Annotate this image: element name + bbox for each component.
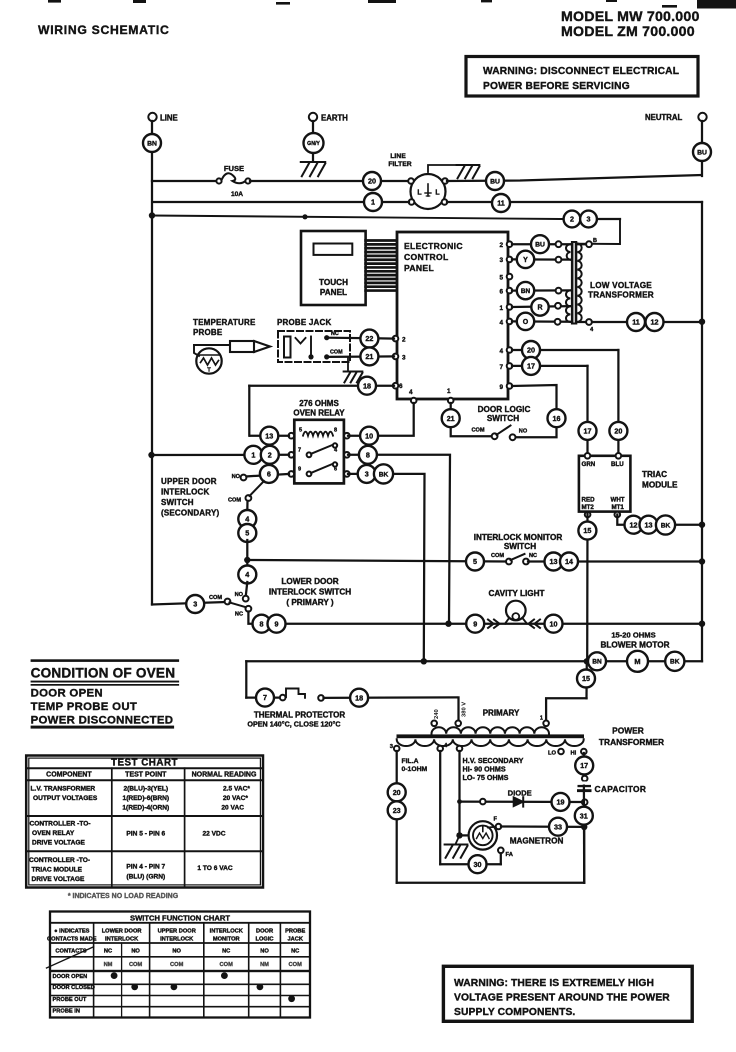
svg-text:INTERLOCK MONITOR: INTERLOCK MONITOR: [474, 533, 563, 542]
svg-text:15-20 OHMS: 15-20 OHMS: [611, 631, 655, 640]
svg-text:276 OHMS: 276 OHMS: [299, 399, 339, 408]
svg-text:1(RED)-4(ORN): 1(RED)-4(ORN): [122, 805, 169, 812]
svg-text:NM: NM: [104, 962, 113, 968]
svg-text:PROBE JACK: PROBE JACK: [277, 318, 331, 327]
svg-text:NC: NC: [291, 949, 299, 955]
svg-text:4: 4: [499, 320, 503, 327]
svg-text:L: L: [417, 190, 422, 197]
svg-text:MONITOR: MONITOR: [213, 937, 240, 943]
svg-text:4: 4: [245, 515, 249, 524]
svg-text:FA: FA: [506, 852, 514, 858]
svg-text:TOUCH: TOUCH: [319, 278, 348, 287]
svg-text:NC: NC: [222, 949, 230, 955]
svg-text:20 VAC: 20 VAC: [221, 805, 244, 812]
svg-text:ELECTRONIC: ELECTRONIC: [404, 241, 463, 251]
svg-text:1(RED)-6(BRN): 1(RED)-6(BRN): [123, 795, 170, 802]
svg-text:SWITCH: SWITCH: [487, 414, 519, 423]
svg-text:1: 1: [499, 305, 503, 312]
svg-text:BK: BK: [670, 659, 680, 666]
svg-text:LOWER DOOR: LOWER DOOR: [281, 577, 338, 586]
svg-text:7: 7: [298, 448, 301, 454]
svg-text:12: 12: [651, 318, 659, 327]
svg-text:THERMAL PROTECTOR: THERMAL PROTECTOR: [254, 711, 345, 720]
svg-text:COM: COM: [471, 428, 484, 434]
svg-text:COM: COM: [170, 962, 184, 968]
svg-text:30: 30: [474, 860, 482, 869]
svg-text:17: 17: [580, 761, 588, 770]
svg-text:PROBE IN: PROBE IN: [53, 1008, 81, 1014]
svg-text:380 V: 380 V: [462, 702, 468, 717]
svg-text:L: L: [435, 190, 440, 197]
svg-text:NEUTRAL: NEUTRAL: [645, 113, 682, 122]
svg-text:COM: COM: [129, 962, 143, 968]
svg-text:20 VAC*: 20 VAC*: [223, 795, 249, 802]
svg-text:NC: NC: [529, 553, 537, 559]
svg-text:UPPER DOOR: UPPER DOOR: [158, 929, 196, 935]
svg-text:BLOWER MOTOR: BLOWER MOTOR: [601, 641, 670, 650]
svg-text:COMPONENT: COMPONENT: [46, 772, 92, 779]
svg-text:0-1OHM: 0-1OHM: [402, 766, 428, 773]
svg-text:PIN 5 - PIN 6: PIN 5 - PIN 6: [126, 831, 165, 838]
svg-text:8: 8: [260, 619, 264, 628]
svg-text:O: O: [523, 319, 529, 326]
svg-text:* INDICATES NO LOAD READING: * INDICATES NO LOAD READING: [68, 893, 179, 900]
svg-text:3: 3: [365, 469, 369, 478]
svg-text:2: 2: [499, 242, 503, 249]
svg-text:INTERLOCK SWITCH: INTERLOCK SWITCH: [269, 588, 351, 597]
svg-text:NO: NO: [131, 949, 140, 955]
svg-text:3: 3: [402, 355, 406, 362]
svg-text:20: 20: [614, 426, 622, 435]
svg-text:LOGIC: LOGIC: [256, 937, 274, 943]
svg-text:NO: NO: [232, 474, 241, 480]
svg-text:13: 13: [645, 520, 653, 529]
svg-text:5: 5: [245, 529, 249, 538]
svg-text:BK: BK: [379, 471, 389, 478]
svg-text:TEMP PROBE OUT: TEMP PROBE OUT: [31, 701, 138, 713]
svg-text:LOWER DOOR: LOWER DOOR: [102, 929, 142, 935]
svg-text:20: 20: [393, 788, 401, 797]
svg-text:WARNING: DISCONNECT ELECTRICA: WARNING: DISCONNECT ELECTRICAL: [483, 66, 679, 77]
svg-text:20: 20: [527, 346, 535, 355]
svg-text:31: 31: [580, 811, 588, 820]
svg-text:14: 14: [565, 557, 573, 566]
svg-text:13: 13: [265, 431, 273, 440]
svg-text:22 VDC: 22 VDC: [202, 831, 225, 838]
svg-text:9: 9: [298, 467, 301, 473]
svg-text:NO: NO: [260, 949, 269, 955]
svg-text:EARTH: EARTH: [321, 114, 348, 123]
svg-text:INTERLOCK: INTERLOCK: [161, 488, 209, 497]
svg-text:MODEL MW 700.000: MODEL MW 700.000: [561, 9, 700, 25]
svg-text:2: 2: [268, 450, 272, 459]
svg-text:7: 7: [499, 364, 503, 371]
svg-text:PANEL: PANEL: [320, 288, 347, 297]
svg-text:WARNING: THERE IS EXTREMELY H: WARNING: THERE IS EXTREMELY HIGH: [454, 978, 654, 989]
svg-text:POWER BEFORE SERVICING: POWER BEFORE SERVICING: [483, 81, 630, 92]
svg-text:SWITCH FUNCTION CHART: SWITCH FUNCTION CHART: [130, 913, 230, 922]
svg-text:1: 1: [251, 450, 255, 459]
svg-text:GN/Y: GN/Y: [307, 141, 320, 147]
svg-text:15: 15: [583, 526, 591, 535]
svg-text:LINE: LINE: [160, 114, 178, 123]
svg-text:NC: NC: [331, 331, 339, 337]
svg-text:1 TO 6 VAC: 1 TO 6 VAC: [197, 865, 233, 872]
svg-text:FIL.A: FIL.A: [402, 758, 419, 765]
svg-text:LO- 75 OHMS: LO- 75 OHMS: [463, 773, 509, 782]
svg-text:21: 21: [447, 414, 455, 423]
svg-text:M: M: [634, 657, 640, 666]
svg-text:(BLU) (GRN): (BLU) (GRN): [126, 874, 165, 881]
svg-text:CONDITION OF OVEN: CONDITION OF OVEN: [31, 666, 176, 681]
svg-text:19: 19: [557, 797, 565, 806]
svg-text:MT1: MT1: [612, 504, 625, 511]
svg-text:9: 9: [499, 384, 503, 391]
svg-text:JACK: JACK: [287, 937, 303, 943]
svg-text:11: 11: [632, 318, 640, 327]
svg-text:POWER: POWER: [612, 726, 644, 736]
svg-text:NORMAL READING: NORMAL READING: [192, 772, 257, 779]
svg-text:22: 22: [365, 334, 373, 343]
svg-text:CAVITY LIGHT: CAVITY LIGHT: [488, 589, 544, 598]
svg-text:T: T: [207, 368, 211, 374]
svg-text:MT2: MT2: [582, 504, 595, 511]
svg-text:PROBE: PROBE: [193, 328, 223, 337]
svg-text:COM: COM: [220, 962, 234, 968]
svg-text:DIODE: DIODE: [508, 789, 532, 798]
svg-text:PROBE: PROBE: [285, 929, 305, 935]
svg-text:16: 16: [553, 414, 561, 423]
svg-text:COM: COM: [289, 962, 303, 968]
svg-text:TEMPERATURE: TEMPERATURE: [193, 318, 256, 327]
svg-text:TRANSFORMER: TRANSFORMER: [599, 737, 664, 747]
svg-text:SWITCH: SWITCH: [504, 542, 536, 551]
svg-text:INTERLOCK: INTERLOCK: [160, 937, 194, 943]
svg-text:HI: HI: [571, 751, 577, 757]
svg-text:LOW VOLTAGE: LOW VOLTAGE: [590, 281, 652, 290]
svg-text:MODEL ZM 700.000: MODEL ZM 700.000: [561, 24, 695, 40]
svg-text:5: 5: [473, 557, 477, 566]
svg-text:CAPACITOR: CAPACITOR: [595, 784, 647, 794]
svg-text:( PRIMARY ): ( PRIMARY ): [286, 598, 334, 607]
svg-text:FILTER: FILTER: [388, 161, 411, 168]
svg-text:UPPER DOOR: UPPER DOOR: [161, 477, 217, 486]
svg-text:BN: BN: [147, 140, 157, 147]
svg-text:DOOR LOGIC: DOOR LOGIC: [478, 405, 531, 414]
svg-text:21: 21: [365, 352, 373, 361]
svg-text:3: 3: [499, 257, 503, 264]
svg-text:9: 9: [473, 619, 477, 628]
svg-text:TEST CHART: TEST CHART: [111, 757, 178, 768]
svg-text:INTERLOCK: INTERLOCK: [105, 937, 139, 943]
svg-text:240: 240: [434, 709, 440, 719]
svg-text:5: 5: [499, 275, 503, 282]
svg-text:5: 5: [299, 428, 302, 434]
svg-text:TRIAC MODULE: TRIAC MODULE: [32, 867, 83, 874]
svg-text:COM: COM: [330, 350, 343, 356]
svg-text:10A: 10A: [231, 191, 243, 198]
svg-text:DOOR: DOOR: [256, 929, 273, 935]
svg-text:COM: COM: [228, 498, 241, 504]
svg-text:● INDICATES: ● INDICATES: [54, 929, 89, 935]
svg-text:1: 1: [540, 716, 543, 722]
svg-text:L.V. TRANSFORMER: L.V. TRANSFORMER: [31, 786, 96, 793]
svg-text:4: 4: [245, 570, 249, 579]
svg-text:POWER DISCONNECTED: POWER DISCONNECTED: [31, 715, 174, 727]
svg-text:2: 2: [570, 215, 574, 224]
svg-text:WIRING SCHEMATIC: WIRING SCHEMATIC: [38, 23, 170, 37]
svg-text:PROBE OUT: PROBE OUT: [53, 997, 87, 1003]
svg-text:CONTACTS MADE: CONTACTS MADE: [47, 937, 97, 943]
svg-text:TRANSFORMER: TRANSFORMER: [588, 291, 654, 300]
svg-text:12: 12: [630, 520, 638, 529]
svg-text:15: 15: [582, 674, 590, 683]
svg-text:18: 18: [363, 381, 371, 390]
svg-text:DOOR OPEN: DOOR OPEN: [31, 688, 103, 700]
svg-text:BN: BN: [592, 659, 602, 666]
svg-text:NO: NO: [172, 949, 181, 955]
svg-text:NM: NM: [260, 962, 269, 968]
svg-text:PIN 4 - PIN 7: PIN 4 - PIN 7: [126, 864, 165, 871]
svg-text:OVEN RELAY: OVEN RELAY: [293, 409, 345, 418]
svg-text:4: 4: [499, 348, 503, 355]
svg-text:NC: NC: [235, 612, 243, 618]
svg-text:13: 13: [550, 557, 558, 566]
svg-text:10: 10: [550, 619, 558, 628]
svg-text:2(BLU)-3(YEL): 2(BLU)-3(YEL): [123, 786, 168, 793]
svg-text:4: 4: [590, 327, 594, 333]
svg-text:RED: RED: [582, 497, 596, 504]
svg-text:BK: BK: [661, 522, 671, 529]
svg-text:7: 7: [263, 693, 267, 702]
svg-text:OPEN 140°C, CLOSE 120°C: OPEN 140°C, CLOSE 120°C: [247, 720, 340, 729]
svg-text:DRIVE VOLTAGE: DRIVE VOLTAGE: [32, 840, 85, 847]
svg-text:CONTROLLER -TO-: CONTROLLER -TO-: [29, 857, 90, 864]
svg-text:FUSE: FUSE: [224, 164, 244, 173]
svg-text:B: B: [593, 238, 597, 244]
svg-text:LO: LO: [548, 751, 557, 757]
svg-text:2: 2: [402, 337, 406, 344]
svg-text:VOLTAGE PRESENT AROUND THE POW: VOLTAGE PRESENT AROUND THE POWER: [454, 993, 670, 1004]
svg-text:OVEN RELAY: OVEN RELAY: [32, 830, 75, 837]
svg-text:1: 1: [371, 198, 375, 207]
svg-text:SUPPLY COMPONENTS.: SUPPLY COMPONENTS.: [454, 1007, 575, 1018]
svg-text:CONTROLLER -TO-: CONTROLLER -TO-: [30, 821, 91, 828]
svg-text:MODULE: MODULE: [642, 481, 678, 490]
svg-text:BN: BN: [521, 288, 531, 295]
svg-text:TRIAC: TRIAC: [642, 470, 667, 479]
svg-text:6: 6: [399, 383, 403, 390]
svg-text:COM: COM: [209, 595, 222, 601]
svg-text:10: 10: [365, 431, 373, 440]
svg-text:PRIMARY: PRIMARY: [483, 709, 520, 718]
svg-text:MAGNETRON: MAGNETRON: [510, 837, 564, 846]
svg-text:20: 20: [368, 177, 376, 186]
svg-text:COM: COM: [491, 553, 504, 559]
svg-text:6: 6: [267, 469, 271, 478]
svg-text:Y: Y: [523, 257, 528, 264]
svg-text:BU: BU: [490, 178, 500, 185]
svg-text:17: 17: [584, 426, 592, 435]
svg-text:18: 18: [355, 693, 363, 702]
svg-text:(SECONDARY): (SECONDARY): [161, 509, 219, 518]
svg-text:NC: NC: [104, 949, 112, 955]
svg-text:1: 1: [447, 388, 451, 395]
svg-text:BLU: BLU: [611, 461, 624, 468]
svg-text:2.5 VAC*: 2.5 VAC*: [223, 786, 250, 793]
svg-text:8: 8: [366, 450, 370, 459]
svg-text:DOOR CLOSED: DOOR CLOSED: [53, 985, 95, 991]
svg-text:DRIVE VOLTAGE: DRIVE VOLTAGE: [32, 876, 85, 883]
svg-text:17: 17: [527, 361, 535, 370]
svg-text:33: 33: [554, 822, 562, 831]
svg-text:23: 23: [393, 806, 401, 815]
svg-text:F: F: [494, 817, 498, 823]
svg-text:OUTPUT VOLTAGES: OUTPUT VOLTAGES: [33, 795, 98, 802]
svg-text:6: 6: [499, 289, 503, 296]
svg-text:4: 4: [409, 389, 413, 396]
svg-text:9: 9: [275, 619, 279, 628]
svg-text:INTERLOCK: INTERLOCK: [210, 929, 244, 935]
svg-text:CONTROL: CONTROL: [404, 252, 449, 262]
svg-text:GRN: GRN: [582, 461, 596, 468]
svg-text:LINE: LINE: [390, 153, 406, 160]
svg-text:SWITCH: SWITCH: [161, 498, 194, 507]
svg-text:3: 3: [193, 600, 197, 609]
svg-text:BU: BU: [535, 242, 545, 249]
svg-text:8: 8: [334, 428, 337, 434]
svg-text:TEST POINT: TEST POINT: [125, 772, 167, 779]
svg-text:DOOR OPEN: DOOR OPEN: [53, 974, 88, 980]
svg-text:BU: BU: [697, 149, 707, 156]
svg-text:WHT: WHT: [611, 497, 625, 504]
svg-text:NO: NO: [519, 429, 528, 435]
svg-text:11: 11: [497, 199, 505, 208]
svg-text:3: 3: [587, 215, 591, 224]
svg-text:R: R: [537, 305, 542, 312]
svg-text:PANEL: PANEL: [404, 263, 434, 273]
